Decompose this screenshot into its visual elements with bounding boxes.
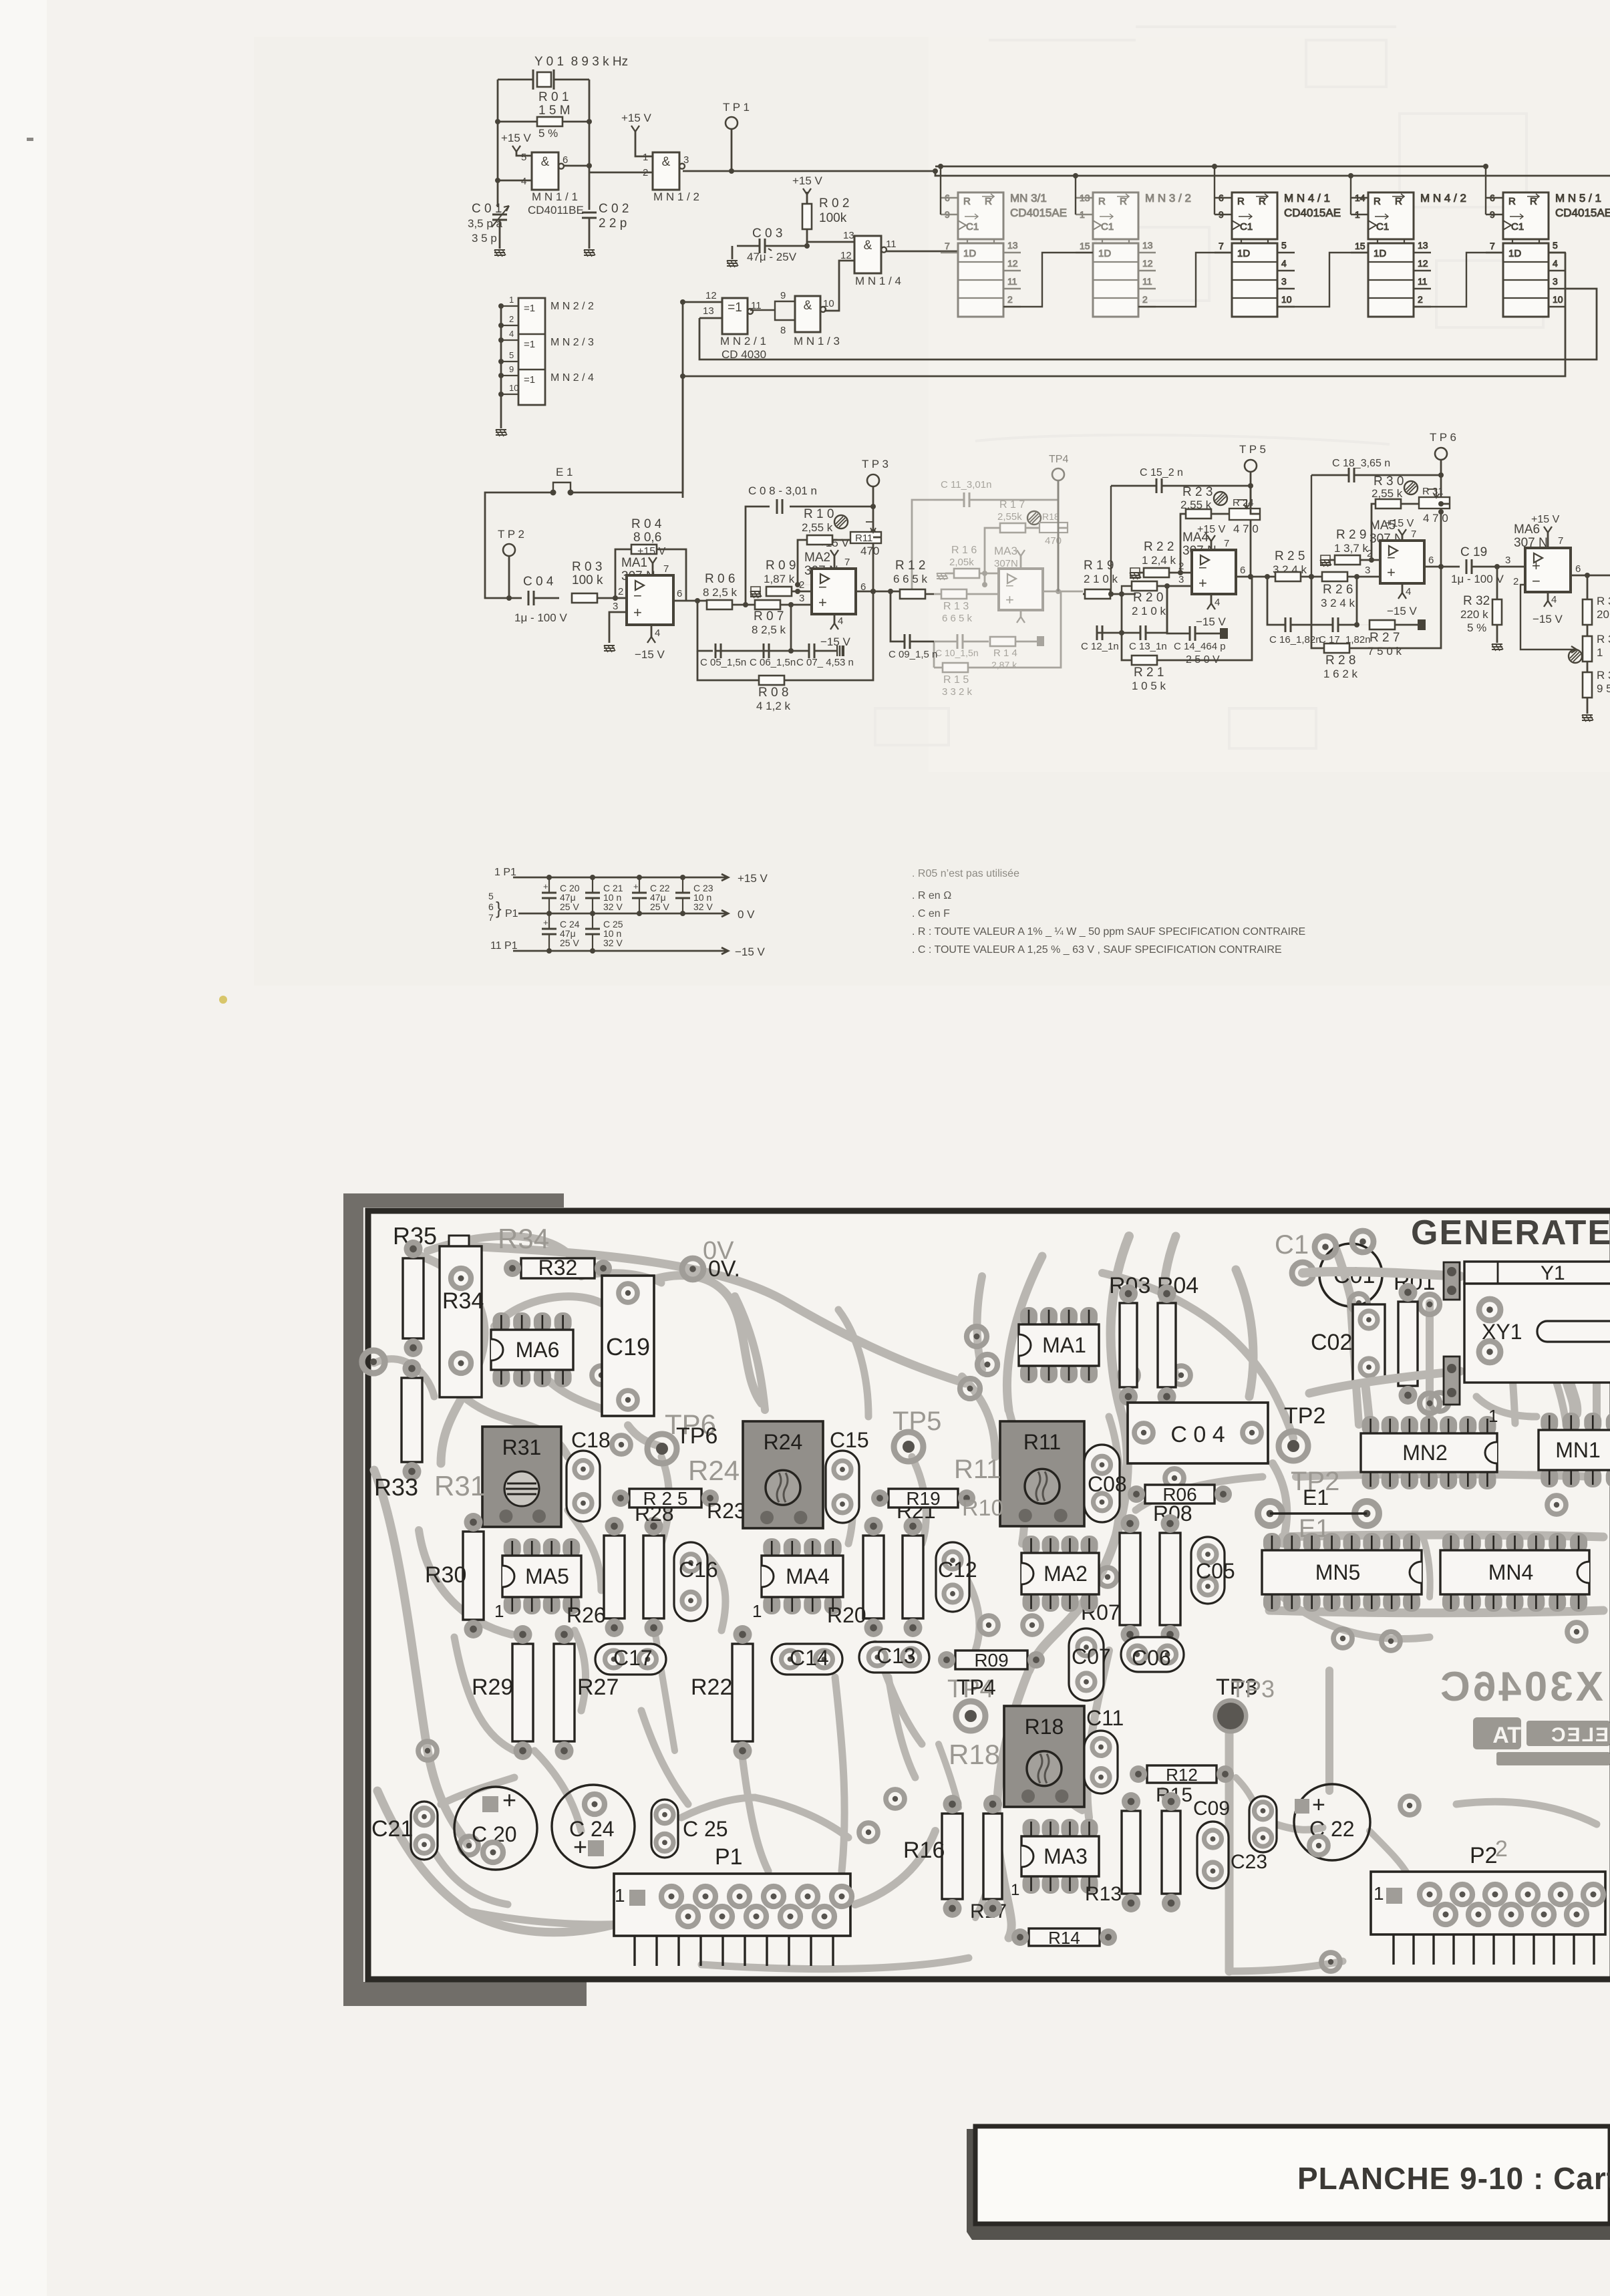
svg-text:4: 4	[509, 329, 514, 339]
svg-text:C 15_2 n: C 15_2 n	[1140, 467, 1183, 478]
shift register MN5/1	[1486, 192, 1610, 317]
svg-text:220 k: 220 k	[1460, 608, 1488, 621]
svg-text:3: 3	[1365, 565, 1370, 576]
svg-text:M N 1 / 1: M N 1 / 1	[532, 190, 578, 203]
svg-text:1 2,4 k: 1 2,4 k	[1142, 554, 1176, 567]
resistor R14 pcb	[1029, 1928, 1100, 1946]
svg-text:MN5: MN5	[1315, 1560, 1361, 1584]
wire main clock line	[683, 170, 935, 172]
capacitor C15 pcb	[826, 1451, 859, 1523]
capacitor C18 pcb	[567, 1451, 600, 1522]
svg-text:C1: C1	[1101, 221, 1114, 233]
socket XY1 pcb	[1464, 1284, 1610, 1383]
svg-text:1 6 2 k: 1 6 2 k	[1323, 668, 1358, 680]
svg-text:6 6 5 k: 6 6 5 k	[942, 613, 973, 624]
svg-text:C09: C09	[1193, 1798, 1230, 1820]
svg-text:E 1: E 1	[556, 466, 573, 478]
svg-text:C1: C1	[1240, 221, 1253, 233]
svg-text:−15 V: −15 V	[635, 648, 665, 661]
capacitor C20 pcb	[454, 1787, 537, 1870]
svg-text:7: 7	[1224, 538, 1229, 549]
logo ATELEC mirrored	[1473, 1717, 1610, 1765]
caption box shadow	[967, 2129, 1610, 2240]
svg-text:C23: C23	[1231, 1851, 1267, 1873]
svg-text:X3046C: X3046C	[1438, 1664, 1603, 1710]
svg-text:470: 470	[860, 545, 879, 557]
wire C15 left down to input node	[1110, 486, 1112, 594]
svg-text:4: 4	[521, 176, 526, 187]
svg-text:2: 2	[1418, 294, 1423, 305]
svg-text:3: 3	[799, 593, 804, 604]
svg-text:8: 8	[780, 325, 786, 336]
svg-text:C 10_1,5n: C 10_1,5n	[935, 648, 979, 658]
svg-text:100 k: 100 k	[572, 573, 603, 587]
wire C18 left down	[1311, 475, 1312, 577]
resistor R20 210k	[1132, 581, 1157, 591]
svg-text:6 6 5 k: 6 6 5 k	[893, 573, 928, 585]
svg-text:M N 3 / 2: M N 3 / 2	[1145, 192, 1191, 204]
svg-text:2 5 0 V: 2 5 0 V	[1186, 654, 1220, 666]
svg-text:1μ - 100 V: 1μ - 100 V	[514, 611, 567, 624]
svg-text:3: 3	[1178, 574, 1184, 585]
svg-text:5: 5	[488, 891, 494, 901]
resistor R14 faint	[990, 637, 1015, 646]
svg-text:C06: C06	[1132, 1646, 1171, 1670]
svg-text:11: 11	[1418, 276, 1428, 287]
svg-text:MA1: MA1	[621, 556, 647, 570]
svg-text:C 09_1,5 n: C 09_1,5 n	[889, 649, 937, 660]
svg-text:M N 2 / 1: M N 2 / 1	[720, 335, 766, 347]
wire MA4 pin3	[1167, 585, 1192, 587]
resistors R29 R27 pcb	[512, 1644, 533, 1741]
svg-text:R 3: R 3	[1597, 633, 1610, 645]
wire MN1/4 output	[886, 251, 975, 294]
svg-text:R 2 3: R 2 3	[1182, 485, 1213, 499]
resistor R06 pcb	[1145, 1485, 1215, 1503]
svg-text:4: 4	[838, 615, 843, 627]
wire R03 to MA1 inverting input	[597, 597, 627, 599]
ground below C01	[494, 250, 506, 257]
wire MN2/1 pin13 input	[699, 317, 722, 319]
svg-text:R11: R11	[855, 533, 872, 544]
trimmer R24 pcb	[743, 1421, 823, 1528]
svg-text:TP6: TP6	[676, 1423, 717, 1449]
resistor R32 pcb	[521, 1258, 595, 1278]
svg-text:+15 V: +15 V	[501, 132, 532, 144]
svg-text:11: 11	[1007, 276, 1017, 287]
svg-text:MN1: MN1	[1555, 1438, 1601, 1462]
shift register MN3/1	[941, 192, 1067, 317]
svg-text:MA1: MA1	[1042, 1333, 1086, 1357]
svg-text:R32: R32	[538, 1256, 578, 1280]
wire oscillator right rail	[589, 80, 591, 210]
svg-text:C 18_3,65 n: C 18_3,65 n	[1332, 458, 1390, 469]
capacitor C14 pcb	[772, 1644, 842, 1675]
svg-text:13: 13	[1418, 240, 1428, 251]
svg-text:+: +	[818, 594, 827, 611]
svg-text:GENERATEUR: GENERATEUR	[1411, 1213, 1610, 1252]
wire pin13 drop	[699, 289, 1597, 360]
svg-text:C19: C19	[606, 1333, 650, 1360]
svg-text:3 5 p: 3 5 p	[472, 232, 497, 245]
svg-text:R: R	[1120, 196, 1127, 207]
resistors R16 R17 pcb	[942, 1814, 963, 1899]
svg-text:3: 3	[1505, 555, 1510, 566]
svg-text:R 1 4: R 1 4	[993, 648, 1017, 659]
capacitor C19 pcb	[602, 1276, 654, 1416]
svg-text:2: 2	[509, 314, 514, 324]
svg-text:8 2,5 k: 8 2,5 k	[752, 623, 786, 636]
svg-text:5: 5	[521, 152, 526, 163]
resistor R26 324k	[1322, 572, 1347, 581]
wire MA6 feedback from divider	[1520, 585, 1577, 653]
svg-text:R 32: R 32	[1463, 594, 1490, 608]
svg-text:+: +	[1005, 591, 1014, 608]
svg-text:−15 V: −15 V	[1196, 615, 1227, 628]
shift register MN3/2	[1076, 192, 1191, 317]
svg-text:20: 20	[1597, 608, 1609, 621]
power -15V at MA4	[1211, 594, 1213, 603]
svg-text:3 2 4 k: 3 2 4 k	[1321, 597, 1355, 609]
capacitor C22 pcb	[1294, 1784, 1370, 1860]
svg-text:+: +	[633, 604, 642, 621]
pad cluster MA1 left	[967, 1326, 987, 1346]
resistors R07 R08 pcb	[1120, 1533, 1140, 1625]
svg-text:13: 13	[843, 230, 854, 241]
wire oscillator left rail	[497, 80, 499, 207]
svg-text:R 0 2: R 0 2	[819, 196, 849, 210]
svg-text:5: 5	[509, 350, 514, 360]
svg-text:1 5 M: 1 5 M	[538, 104, 571, 118]
svg-text:MN 3/1: MN 3/1	[1010, 192, 1047, 204]
svg-text:+: +	[543, 917, 548, 927]
resistor R13 665k faint	[926, 593, 999, 595]
svg-text:2: 2	[618, 586, 623, 597]
svg-text:TA: TA	[1492, 1723, 1521, 1748]
svg-text:P1: P1	[505, 908, 518, 919]
svg-text:R31: R31	[502, 1435, 542, 1459]
svg-text:R 2 1: R 2 1	[1134, 666, 1164, 680]
svg-text:R: R	[1259, 196, 1266, 207]
capacitor C01 pcb	[1319, 1244, 1382, 1306]
svg-text:C 0 2: C 0 2	[599, 202, 629, 216]
capacitor C12 pcb	[936, 1542, 969, 1612]
svg-text:R24: R24	[688, 1455, 740, 1486]
svg-text:−15 V: −15 V	[820, 635, 851, 648]
svg-text:+15 V: +15 V	[1531, 514, 1560, 525]
pad 0V	[682, 1258, 703, 1280]
svg-text:R 3: R 3	[1597, 595, 1610, 607]
capacitor C02	[582, 212, 597, 218]
svg-text:C 0 8 - 3,01 n: C 0 8 - 3,01 n	[748, 484, 817, 497]
capacitor C05 pcb	[1191, 1537, 1225, 1604]
svg-text:C 24: C 24	[569, 1817, 615, 1841]
svg-text:R: R	[1098, 196, 1106, 207]
connector P1 pcb	[614, 1874, 850, 1936]
capacitor C23	[682, 877, 683, 913]
svg-text:&: &	[804, 299, 812, 313]
svg-text:. C en F: . C en F	[912, 908, 950, 919]
ground at C03	[727, 261, 738, 267]
svg-text:1: 1	[494, 1601, 504, 1621]
wire C16 C17 branch	[1267, 577, 1357, 625]
svg-text:−15 V: −15 V	[1387, 605, 1418, 617]
svg-text:47μ - 25V: 47μ - 25V	[747, 251, 797, 263]
svg-text:1: 1	[509, 295, 514, 305]
ground at divider	[1582, 715, 1593, 722]
wire long feedback line lower	[683, 253, 1565, 376]
wire MN2/1 output to MN1/3	[750, 301, 795, 320]
svg-text:25 V: 25 V	[560, 938, 579, 948]
svg-text:3: 3	[683, 154, 689, 166]
svg-text:7: 7	[945, 241, 950, 251]
svg-text:TP4: TP4	[1049, 454, 1068, 465]
svg-text:C 0 4: C 0 4	[1170, 1422, 1225, 1447]
svg-text:R11: R11	[954, 1455, 1001, 1484]
svg-text:+15 V: +15 V	[637, 546, 666, 557]
svg-text:M N 4 / 2: M N 4 / 2	[1420, 192, 1466, 204]
svg-text:1D: 1D	[1098, 248, 1111, 259]
svg-text:R 2 0: R 2 0	[1133, 591, 1163, 605]
svg-text:1D: 1D	[1374, 248, 1386, 259]
svg-text:R 2 6: R 2 6	[1323, 583, 1353, 597]
ground below C02	[584, 250, 595, 257]
svg-text:. R en Ω: . R en Ω	[912, 890, 951, 901]
copper mirrored text X3046C	[1438, 1664, 1603, 1710]
svg-text:MA3: MA3	[1043, 1844, 1088, 1868]
svg-text:R34: R34	[442, 1288, 484, 1314]
svg-text:R27: R27	[577, 1675, 619, 1700]
svg-text:R29: R29	[472, 1675, 513, 1700]
svg-text:MA4: MA4	[786, 1564, 830, 1588]
wire clock bus upper	[935, 166, 1486, 168]
power -15V at MA2	[834, 614, 836, 623]
resistor R34 divider mid	[1583, 636, 1592, 662]
wire R04 feedback loop	[615, 549, 686, 601]
svg-text:5 %: 5 %	[538, 127, 558, 140]
connector P2 pcb	[1371, 1872, 1605, 1934]
svg-text:C 06_1,5n: C 06_1,5n	[750, 657, 796, 668]
svg-text:R 31: R 31	[1422, 486, 1444, 497]
svg-text:TP3: TP3	[1231, 1675, 1275, 1703]
svg-text:13: 13	[1142, 240, 1153, 251]
faint stage MA3 group	[912, 479, 1083, 698]
svg-text:32 V: 32 V	[603, 901, 623, 912]
svg-text:=1: =1	[728, 301, 742, 315]
small mark left margin	[27, 138, 33, 141]
svg-text:7: 7	[1558, 535, 1563, 547]
svg-text:6: 6	[1428, 555, 1434, 566]
wire -15V rail	[513, 948, 728, 954]
svg-text:=1: =1	[524, 303, 535, 314]
svg-text:100k: 100k	[819, 211, 847, 225]
test point TP5 pcb	[894, 1432, 923, 1461]
capacitor R34 body pcb	[449, 1236, 469, 1246]
ic MN1 pcb	[1541, 1413, 1558, 1433]
svg-text:R16: R16	[903, 1838, 945, 1863]
wire clock bus lower	[935, 171, 1610, 176]
ground at C07	[836, 645, 844, 656]
svg-text:3,5 p à: 3,5 p à	[468, 217, 503, 230]
svg-text:2 2 p: 2 2 p	[599, 217, 627, 231]
svg-text:+: +	[502, 1786, 516, 1814]
trimmer R31 pcb	[482, 1427, 561, 1527]
svg-text:1μ - 100 V: 1μ - 100 V	[1451, 573, 1504, 585]
wire pcb traces group	[374, 1236, 1603, 1971]
wire +15V rail	[513, 874, 728, 881]
svg-text:3: 3	[613, 601, 618, 612]
resistor R32 220k 5%	[1492, 599, 1502, 625]
svg-text:MA3: MA3	[994, 545, 1017, 557]
svg-text:. R : TOUTE VALEUR A 1% _: . R : TOUTE VALEUR A 1% _ ¼ W _ 50 ppm S…	[912, 926, 1305, 938]
svg-text:1D: 1D	[1508, 248, 1521, 259]
resistors R20 R21 pcb	[863, 1536, 884, 1618]
svg-text:R 0 1: R 0 1	[538, 90, 569, 104]
svg-text:R31: R31	[434, 1470, 486, 1501]
wire R07 to MA2 pin3	[780, 604, 812, 606]
svg-text:8 0,6: 8 0,6	[633, 531, 661, 545]
resistor R12 pcb	[1147, 1765, 1217, 1783]
svg-text:ELEC: ELEC	[1550, 1724, 1609, 1746]
svg-text:+: +	[543, 881, 548, 891]
ground at R32	[1492, 644, 1503, 651]
svg-text:7: 7	[663, 563, 669, 575]
wire pcb traces lower middle	[742, 1751, 768, 1871]
svg-text:10: 10	[823, 298, 834, 309]
svg-text:2 1 0 k: 2 1 0 k	[1132, 605, 1166, 617]
ic MA5 pcb	[504, 1538, 521, 1558]
svg-text:R14: R14	[1048, 1928, 1080, 1948]
svg-text:C12: C12	[938, 1558, 977, 1582]
svg-text:6: 6	[562, 154, 568, 166]
svg-text:T P 5: T P 5	[1239, 443, 1266, 456]
trimmer R24 470	[1214, 492, 1227, 505]
svg-text:R 1 7: R 1 7	[999, 499, 1025, 511]
svg-text:Y1: Y1	[1541, 1262, 1565, 1284]
capacitor C06 pcb	[1121, 1637, 1184, 1672]
svg-text:R 1 3: R 1 3	[943, 601, 969, 612]
resistor R02 100k	[802, 204, 812, 229]
ground below stack	[496, 430, 507, 436]
svg-text:25 V: 25 V	[560, 901, 579, 912]
svg-text:R: R	[1374, 196, 1381, 207]
svg-text:M N 2 / 4: M N 2 / 4	[550, 372, 594, 384]
svg-text:C17: C17	[613, 1646, 653, 1670]
ic MA6 pcb	[492, 1312, 510, 1332]
ic MA3 pcb	[1023, 1819, 1040, 1839]
svg-text:9: 9	[780, 290, 786, 301]
capacitor C08 pcb	[1084, 1445, 1120, 1522]
svg-text:R19: R19	[906, 1488, 940, 1509]
svg-text:R 0 8: R 0 8	[758, 686, 788, 700]
svg-text:R 1 9: R 1 9	[1084, 559, 1114, 573]
svg-text:6: 6	[488, 901, 494, 912]
svg-text:2: 2	[1142, 294, 1148, 305]
svg-text:11: 11	[1142, 276, 1152, 287]
svg-text:+15 V: +15 V	[1197, 524, 1226, 535]
svg-text:10: 10	[509, 383, 518, 393]
svg-text:3: 3	[1281, 276, 1287, 287]
svg-text:C1: C1	[966, 221, 979, 233]
capacitor C23 pcb	[1249, 1796, 1277, 1852]
trimmer R11 470	[834, 515, 848, 529]
svg-text:TP4: TP4	[957, 1675, 996, 1699]
svg-text:1D: 1D	[963, 248, 976, 259]
shift register MN4/2	[1351, 192, 1466, 317]
wire register cascade connections	[1003, 253, 1093, 307]
svg-text:C 19: C 19	[1460, 545, 1487, 559]
svg-text:P1: P1	[715, 1844, 743, 1870]
svg-text:MA2: MA2	[804, 551, 830, 565]
power -15V at MA1	[651, 625, 653, 637]
svg-text:−15 V: −15 V	[735, 946, 766, 958]
svg-text:4 7 0: 4 7 0	[1423, 512, 1448, 525]
svg-text:MA6: MA6	[516, 1338, 560, 1362]
svg-text:XY1: XY1	[1482, 1320, 1522, 1344]
pads right column	[1420, 1294, 1440, 1314]
svg-text:CD4011BE: CD4011BE	[528, 204, 584, 217]
svg-text:MN4: MN4	[1488, 1560, 1534, 1584]
svg-text:5: 5	[1281, 240, 1287, 251]
svg-text:15: 15	[1355, 241, 1365, 251]
capacitor C20	[548, 877, 550, 913]
svg-text:M N 4 / 1: M N 4 / 1	[1284, 192, 1330, 204]
svg-text:M N 2 / 3: M N 2 / 3	[550, 337, 594, 348]
svg-text:3 3 2 k: 3 3 2 k	[942, 686, 973, 698]
svg-text:MN2: MN2	[1402, 1441, 1448, 1465]
svg-text:1: 1	[752, 1601, 762, 1621]
svg-text:4: 4	[1215, 597, 1220, 608]
svg-text:C 25: C 25	[683, 1817, 728, 1841]
svg-text:R09: R09	[974, 1650, 1008, 1671]
resistor R22 pcb	[732, 1644, 753, 1741]
wire 0V rail	[518, 910, 728, 917]
svg-text:2 1 0 k: 2 1 0 k	[1084, 573, 1118, 585]
svg-text:R 0 6: R 0 6	[705, 572, 735, 586]
svg-text:R33: R33	[374, 1473, 418, 1501]
resistor R25 pcb	[629, 1489, 701, 1508]
svg-text:R 1 5: R 1 5	[943, 674, 969, 686]
svg-text:C18: C18	[571, 1428, 611, 1452]
svg-text:R23: R23	[707, 1499, 746, 1523]
svg-text:E1: E1	[1303, 1485, 1329, 1510]
svg-text:11: 11	[886, 239, 897, 250]
svg-text:6: 6	[677, 588, 682, 599]
nand gate MN1/1	[532, 152, 558, 190]
svg-text:8 2,5 k: 8 2,5 k	[703, 586, 738, 599]
svg-text:R: R	[1508, 196, 1516, 207]
pcb photo shadow left	[343, 1193, 363, 2006]
svg-text:M N 1 / 2: M N 1 / 2	[653, 190, 699, 203]
wire MN1/1 output to C02 node	[563, 165, 589, 167]
pcb photo shadow top	[343, 1193, 564, 1207]
svg-text:R18: R18	[1025, 1715, 1064, 1739]
resistor R35 divider bottom	[1583, 672, 1592, 698]
test point TP4 pcb	[956, 1701, 985, 1731]
svg-text:R34: R34	[498, 1223, 549, 1254]
svg-text:5: 5	[1553, 240, 1558, 251]
wire node to MN1/2	[589, 172, 653, 174]
wire stack input bus	[500, 304, 502, 428]
svg-text:−15 V: −15 V	[1533, 613, 1563, 625]
power -15V at MA5	[1402, 583, 1404, 593]
svg-text:CD4015AE: CD4015AE	[1284, 206, 1341, 219]
svg-text:M N 5 / 1: M N 5 / 1	[1555, 192, 1601, 204]
svg-text:2,55k: 2,55k	[997, 511, 1022, 523]
svg-text:10: 10	[1553, 294, 1563, 305]
svg-text:+15 V: +15 V	[792, 174, 823, 187]
ground at C14	[1220, 628, 1228, 639]
